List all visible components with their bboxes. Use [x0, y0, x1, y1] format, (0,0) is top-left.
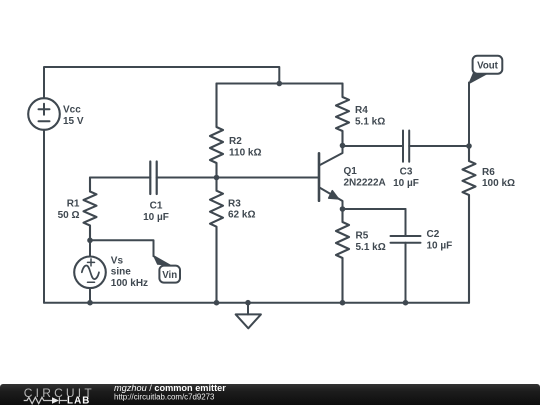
node R5 to ground rail	[340, 300, 346, 306]
node emitter junction	[340, 206, 346, 212]
CircuitLab logo	[24, 386, 95, 405]
wire Vs bottom lead	[89, 288, 91, 303]
transistor Q1	[319, 146, 386, 210]
node C2 to ground rail	[403, 300, 409, 306]
wire left rail Vcc to ground rail	[43, 130, 45, 303]
capacitor C3	[393, 131, 419, 190]
source Vs (sine)	[74, 255, 148, 289]
footer bar	[0, 384, 540, 405]
wire R1 top to C1 left	[90, 177, 150, 179]
wire output node up to Vout flag	[468, 83, 470, 147]
svg-text:http://circuitlab.com/c7d9273: http://circuitlab.com/c7d9273	[114, 392, 215, 401]
node collector junction	[340, 143, 346, 149]
wire C3 to output node	[409, 145, 469, 147]
net flag Vout	[469, 56, 502, 84]
node Vs to ground rail	[87, 300, 93, 306]
wire Vin tap	[90, 240, 154, 256]
node R2/R3 base junction	[214, 175, 220, 181]
node R1 / Vs junction	[87, 238, 93, 244]
voltage source Vcc	[28, 98, 84, 130]
wire emitter to R5/C2	[343, 208, 406, 210]
resistor R1	[58, 178, 97, 241]
wire bottom ground rail	[44, 302, 469, 304]
wire collector to C3	[343, 145, 404, 147]
resistor R4	[336, 84, 385, 146]
capacitor C1	[143, 162, 169, 224]
svg-text:mgzhou / common emitter: mgzhou / common emitter	[114, 383, 226, 393]
resistor R2	[210, 84, 262, 178]
node output junction	[466, 143, 472, 149]
resistor R6	[463, 146, 516, 303]
node ground tap	[245, 300, 251, 306]
node junction top rail	[277, 81, 283, 87]
capacitor C2	[391, 209, 453, 303]
resistor R5	[336, 209, 386, 303]
wire R2 top to R4 top	[217, 83, 343, 85]
footer attribution text	[114, 383, 226, 402]
resistor R3	[210, 178, 255, 303]
wire Vs top lead	[89, 240, 91, 256]
svg-text:LAB: LAB	[67, 396, 90, 405]
ground	[236, 303, 261, 329]
wire Vcc top to node (top rail)	[44, 67, 279, 98]
net flag Vin	[154, 256, 181, 283]
node R3 to ground rail	[214, 300, 220, 306]
wire base rail (C1 right to Q1 base)	[157, 177, 319, 179]
